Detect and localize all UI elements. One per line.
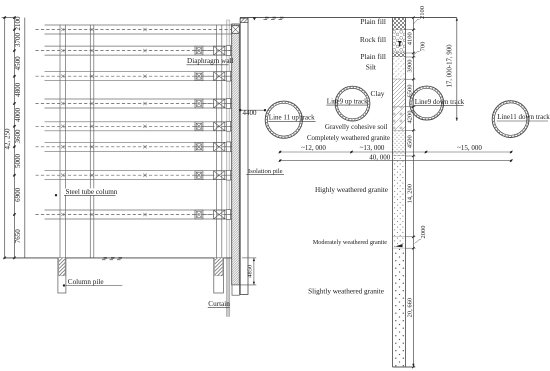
svg-text:3600: 3600 (14, 129, 22, 144)
svg-text:Completely weathered granite: Completely weathered granite (307, 135, 390, 142)
svg-text:Line 11 up track: Line 11 up track (269, 114, 315, 122)
svg-text:Highly weathered granite: Highly weathered granite (315, 186, 388, 194)
svg-text:Steel tube column: Steel tube column (66, 188, 118, 196)
svg-text:Slightly weathered granite: Slightly weathered granite (308, 287, 384, 295)
svg-text:Rock fill: Rock fill (360, 35, 386, 44)
svg-text:2100: 2100 (419, 6, 426, 19)
svg-text:4500: 4500 (406, 135, 413, 148)
svg-text:Line9 up track: Line9 up track (327, 97, 368, 105)
svg-text:14, 200: 14, 200 (406, 184, 413, 204)
svg-text:4500: 4500 (14, 56, 22, 71)
svg-text:7650: 7650 (14, 229, 22, 244)
svg-text:42, 250: 42, 250 (4, 128, 12, 150)
svg-text:4000: 4000 (14, 107, 22, 122)
svg-text:Diaphragm wall: Diaphragm wall (187, 57, 234, 65)
svg-text:Moderately weathered granite: Moderately weathered granite (313, 239, 387, 246)
svg-text:Line11 down track: Line11 down track (497, 113, 550, 121)
svg-text:4800: 4800 (14, 82, 22, 97)
svg-text:Isolation pile: Isolation pile (248, 168, 283, 175)
svg-text:Line9 down track: Line9 down track (415, 98, 465, 106)
svg-text:Column pile: Column pile (68, 278, 104, 286)
svg-text:~15, 000: ~15, 000 (457, 144, 482, 152)
svg-text:Plain fill: Plain fill (360, 17, 386, 26)
svg-text:Silt: Silt (366, 63, 377, 72)
svg-text:6900: 6900 (14, 187, 22, 202)
svg-text:2100: 2100 (14, 16, 22, 31)
svg-text:17, 000-17, 900: 17, 000-17, 900 (446, 44, 453, 88)
svg-text:Gravelly cohesive soil: Gravelly cohesive soil (325, 123, 388, 131)
svg-text:700: 700 (420, 42, 427, 52)
svg-text:4850: 4850 (247, 265, 254, 278)
svg-text:Plain fill: Plain fill (360, 52, 386, 61)
svg-text:4200: 4200 (406, 111, 413, 124)
svg-text:~13, 000: ~13, 000 (360, 144, 385, 152)
svg-text:5000: 5000 (14, 154, 22, 169)
svg-text:40, 000: 40, 000 (369, 153, 391, 161)
svg-text:Curtain: Curtain (208, 300, 230, 308)
svg-text:2000: 2000 (420, 226, 427, 239)
svg-text:Clay: Clay (371, 89, 385, 98)
svg-text:3900: 3900 (406, 60, 413, 73)
svg-text:3700: 3700 (14, 33, 22, 48)
svg-text:~12, 000: ~12, 000 (301, 144, 326, 152)
svg-text:6500: 6500 (406, 85, 413, 98)
svg-text:4100: 4100 (406, 32, 413, 45)
svg-text:20, 660: 20, 660 (406, 298, 413, 318)
svg-text:4400: 4400 (243, 109, 258, 117)
